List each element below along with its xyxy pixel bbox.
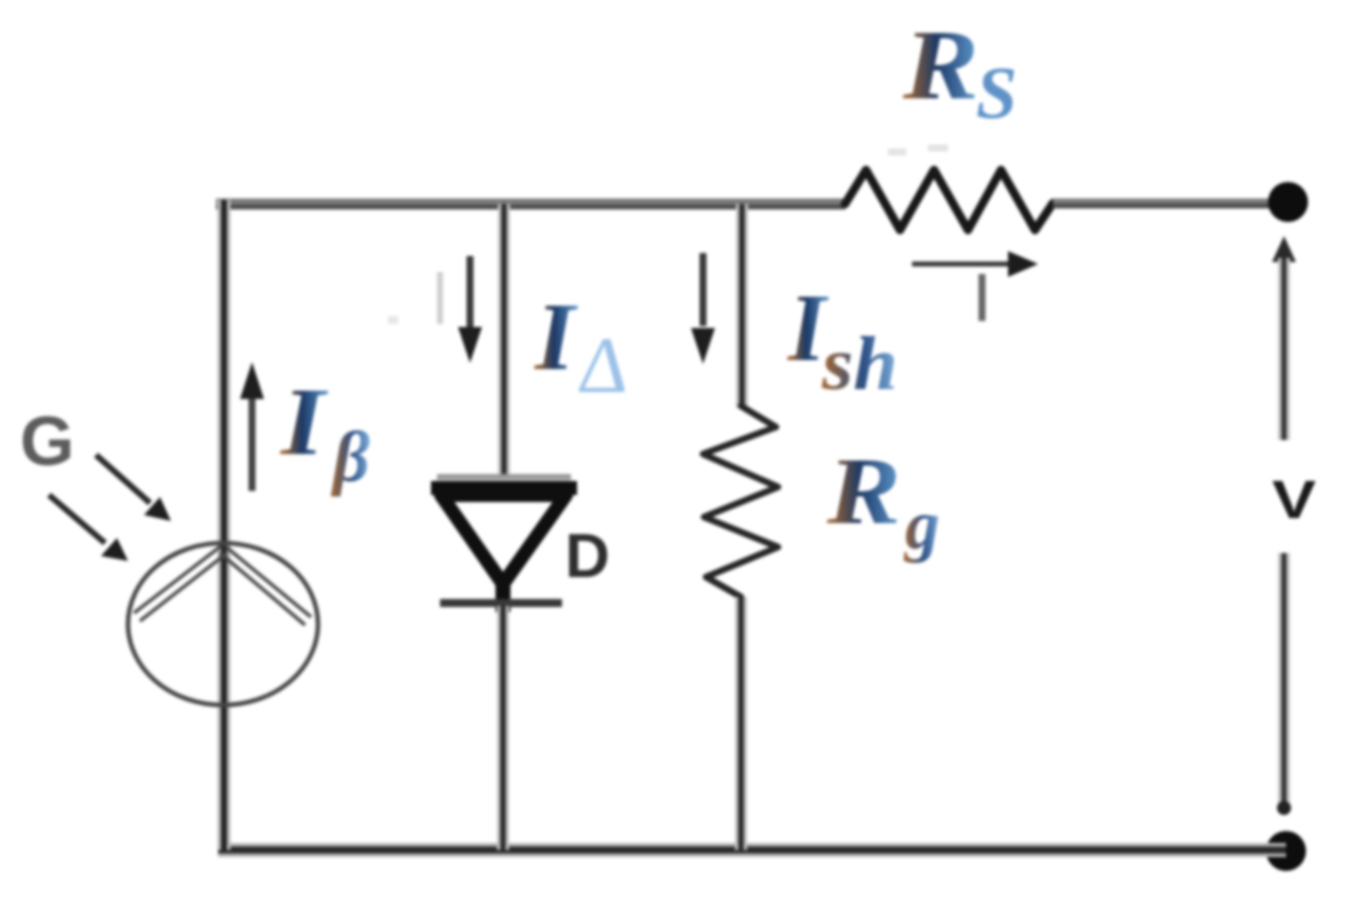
svg-text:I: I [280, 368, 329, 475]
ghost dot near node between diode and Id label [388, 316, 398, 324]
node bottom-right [1266, 831, 1306, 871]
label Ish [787, 274, 898, 406]
label Id [534, 283, 635, 410]
svg-text:Δ: Δ [574, 322, 635, 410]
wire bottom [218, 843, 1286, 857]
arrow Ish down [691, 253, 715, 364]
wire diode branch lower [497, 606, 509, 850]
label RS [902, 9, 1017, 135]
svg-text:S: S [976, 53, 1017, 135]
label Iph [280, 368, 370, 497]
current source G1 [128, 543, 318, 705]
label I [979, 274, 986, 321]
light arrow 2 [49, 495, 128, 561]
ghost marks above resistor RS [888, 148, 948, 152]
diode D1 [431, 477, 577, 612]
svg-text:D: D [565, 522, 610, 591]
wire shunt branch upper [736, 204, 748, 408]
wire shunt branch lower [735, 597, 747, 850]
label Rg [826, 438, 940, 564]
svg-text:β: β [330, 417, 370, 497]
svg-text:I: I [534, 283, 579, 390]
svg-text:R: R [902, 9, 979, 120]
ghost mark left of Id arrow [437, 272, 443, 324]
svg-text:g: g [903, 487, 940, 564]
wire top-left segment [216, 202, 845, 207]
light arrow 1 [96, 455, 171, 521]
svg-text:G: G [20, 402, 74, 480]
arrow V (voltage across terminals) [1272, 236, 1296, 815]
svg-text:sh: sh [821, 322, 898, 406]
wire top-right segment [1053, 202, 1288, 206]
resistor Rg (shunt) [703, 406, 778, 597]
arrow Iph up [240, 362, 264, 491]
arrow I through RS [912, 251, 1038, 277]
svg-text:R: R [826, 438, 901, 544]
arrow Id down [458, 256, 482, 363]
svg-text:V: V [1272, 470, 1316, 530]
wire left [218, 200, 231, 850]
node top-right [1268, 182, 1308, 222]
wire diode branch upper [498, 204, 510, 478]
resistor RS [845, 170, 1053, 230]
